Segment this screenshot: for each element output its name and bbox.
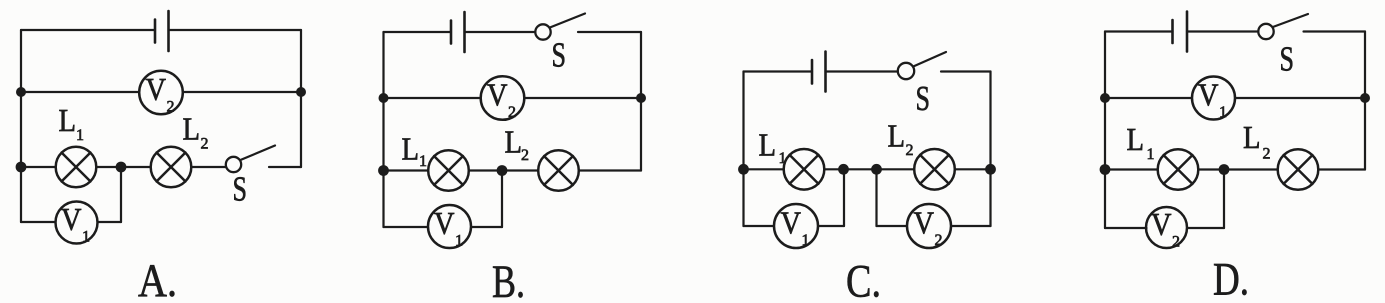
lamp L2 (B) xyxy=(538,150,579,191)
svg-text:S: S xyxy=(1280,40,1295,79)
svg-text:L: L xyxy=(402,131,420,167)
svg-text:2: 2 xyxy=(508,104,516,121)
node D left V1-row junction xyxy=(1100,93,1110,103)
svg-text:S: S xyxy=(552,36,567,75)
wire B lamp-row 2 xyxy=(469,169,538,171)
lamp L1 (A) xyxy=(56,147,97,188)
svg-text:C.: C. xyxy=(846,256,881,303)
node A left lamp-row junction xyxy=(16,162,27,173)
wire D top-mid horizontal xyxy=(1187,30,1258,32)
battery D xyxy=(1173,12,1188,52)
wire C V2 loop bottom-left xyxy=(877,225,908,227)
svg-text:2: 2 xyxy=(1172,234,1180,251)
wire A V1 loop bottom-left xyxy=(21,221,56,223)
wire D lamp-row 2 xyxy=(1198,168,1277,170)
wire C left vertical xyxy=(742,72,744,170)
wire C lamp-row 1 xyxy=(744,168,784,170)
node C right lamp-row junction xyxy=(985,164,996,175)
wire B right vertical xyxy=(640,32,642,171)
wire A top-left horizontal xyxy=(21,29,155,31)
wire A right vertical xyxy=(300,30,302,167)
wire A V2-row right xyxy=(183,91,301,93)
node B left lamp-row junction xyxy=(378,165,389,176)
voltmeter V1 (D) xyxy=(1192,77,1235,120)
wire A lamp-row 2 xyxy=(96,166,150,168)
svg-text:1: 1 xyxy=(76,127,84,144)
voltmeter V1 (A) xyxy=(56,202,98,244)
svg-text:L: L xyxy=(888,118,906,154)
wire D V2 loop right vertical xyxy=(1223,170,1225,229)
svg-text:L: L xyxy=(183,111,201,147)
wire C V1 loop right vertical xyxy=(843,169,845,226)
wire B switch fixed contact xyxy=(578,31,641,33)
switch S (B) xyxy=(535,24,550,39)
wire D lamp-row 1 xyxy=(1105,168,1158,170)
svg-text:V: V xyxy=(781,205,802,241)
battery C xyxy=(812,52,826,92)
wire B left vertical xyxy=(382,32,384,171)
wire C lamp-row 2 xyxy=(824,168,914,170)
wire B top-mid horizontal xyxy=(465,31,536,33)
wire C lamp-row 3 xyxy=(955,168,991,170)
svg-text:V: V xyxy=(61,201,82,237)
wire B V2-row right xyxy=(524,97,641,99)
node D right V1-row junction xyxy=(1360,93,1370,103)
wire D V1-row right xyxy=(1235,97,1365,99)
svg-text:1: 1 xyxy=(1219,104,1227,121)
wire A V1 loop right vertical xyxy=(120,167,122,222)
node D mid lamp-row junction xyxy=(1219,164,1230,175)
wire D V1-row left xyxy=(1105,97,1192,99)
wire D V2 loop bottom-left xyxy=(1105,227,1147,229)
wire C top-left horizontal xyxy=(744,70,813,72)
battery B xyxy=(451,12,465,52)
svg-text:2: 2 xyxy=(1263,146,1271,163)
voltmeter V1 (B) xyxy=(428,205,471,248)
wire B lamp-row 3 xyxy=(579,169,641,171)
svg-text:1: 1 xyxy=(802,232,810,249)
wire A V1 loop bottom-right xyxy=(98,221,122,223)
wire C V2 loop right vertical xyxy=(989,169,991,226)
wire B top-left horizontal xyxy=(384,31,452,33)
svg-text:S: S xyxy=(233,170,248,209)
svg-text:L: L xyxy=(59,102,77,138)
lamp L1 (D) xyxy=(1158,149,1199,190)
wire C switch fixed contact xyxy=(941,70,991,72)
svg-text:1: 1 xyxy=(779,150,787,167)
wire C V1 loop bottom-right xyxy=(818,225,844,227)
voltmeter V2 (A) xyxy=(139,71,183,115)
lamp L2 (D) xyxy=(1278,149,1319,190)
lamp L1 (C) xyxy=(784,149,825,190)
voltmeter V1 (C) xyxy=(774,204,818,248)
voltmeter V2 (D) xyxy=(1146,207,1187,248)
node B mid lamp-row junction xyxy=(497,165,508,176)
wire B V1 loop right vertical xyxy=(501,171,503,228)
svg-text:V: V xyxy=(1198,77,1219,113)
wire A left vertical xyxy=(20,30,22,167)
svg-text:S: S xyxy=(916,79,931,118)
wire D lamp-row 3 xyxy=(1318,168,1365,170)
svg-text:D.: D. xyxy=(1213,254,1249,303)
svg-text:L: L xyxy=(1127,121,1145,157)
svg-text:B.: B. xyxy=(492,256,525,303)
svg-text:A.: A. xyxy=(138,255,177,303)
switch S (C) xyxy=(898,63,914,79)
node D left lamp-row junction xyxy=(1100,164,1111,175)
wire D V2 loop left vertical xyxy=(1104,170,1106,229)
wire D switch fixed contact xyxy=(1304,30,1366,32)
svg-text:V: V xyxy=(146,71,167,107)
lamp L2 (A) xyxy=(151,147,192,188)
wire A top-right horizontal xyxy=(169,29,302,31)
svg-text:1: 1 xyxy=(1147,146,1155,163)
wire A switch fixed contact xyxy=(269,166,301,168)
svg-text:L: L xyxy=(505,124,523,160)
wire D left vertical xyxy=(1104,32,1106,170)
svg-text:2: 2 xyxy=(521,147,529,164)
wire D right vertical xyxy=(1364,32,1366,170)
battery A xyxy=(155,11,169,51)
node C mid-left lamp-row junction xyxy=(838,164,849,175)
svg-text:2: 2 xyxy=(167,99,175,116)
wire C V2 loop left vertical xyxy=(875,169,877,226)
wire C V1 loop bottom-left xyxy=(744,225,775,227)
svg-text:V: V xyxy=(487,77,508,113)
node B right V2-row junction xyxy=(636,93,646,103)
wire A lamp-row 3 xyxy=(191,166,226,168)
wire D V2 loop bottom-right xyxy=(1187,227,1224,229)
wire A lamp-row 1 xyxy=(21,166,56,168)
wire B V1 loop bottom-left xyxy=(384,226,429,228)
svg-text:V: V xyxy=(434,205,455,241)
svg-text:L: L xyxy=(1243,119,1261,155)
lamp L2 (C) xyxy=(914,149,955,190)
wire C V2 loop bottom-right xyxy=(951,225,991,227)
node C left lamp-row junction xyxy=(738,164,749,175)
switch S (D) xyxy=(1258,24,1273,39)
svg-text:V: V xyxy=(1151,206,1172,242)
voltmeter V2 (B) xyxy=(481,76,525,120)
svg-text:V: V xyxy=(914,205,935,241)
lamp L1 (B) xyxy=(428,150,469,191)
node A right V2-row junction xyxy=(296,87,306,97)
voltmeter V2 (C) xyxy=(907,204,951,248)
svg-text:1: 1 xyxy=(82,229,90,246)
svg-text:2: 2 xyxy=(201,136,209,153)
wire C V1 loop left vertical xyxy=(742,169,744,226)
switch S (A) xyxy=(226,157,241,172)
wire D top-left horizontal xyxy=(1105,30,1173,32)
wire B V1 loop bottom-right xyxy=(471,226,502,228)
svg-text:1: 1 xyxy=(419,153,427,170)
wire B lamp-row 1 xyxy=(384,169,429,171)
wire B V2-row left xyxy=(384,97,481,99)
wire A V2-row left xyxy=(21,91,139,93)
svg-text:L: L xyxy=(759,126,777,162)
svg-text:1: 1 xyxy=(455,233,463,250)
wire C right vertical xyxy=(989,72,991,170)
node B left V2-row junction xyxy=(379,93,389,103)
wire B V1 loop left vertical xyxy=(382,171,384,228)
wire A V1 loop left vertical xyxy=(20,167,22,222)
wire C top-mid horizontal xyxy=(826,70,898,72)
node A mid lamp-row junction xyxy=(116,162,127,173)
node C mid-right lamp-row junction xyxy=(871,164,882,175)
node A left V2-row junction xyxy=(16,87,26,97)
svg-text:2: 2 xyxy=(935,232,943,249)
svg-text:2: 2 xyxy=(906,142,914,159)
